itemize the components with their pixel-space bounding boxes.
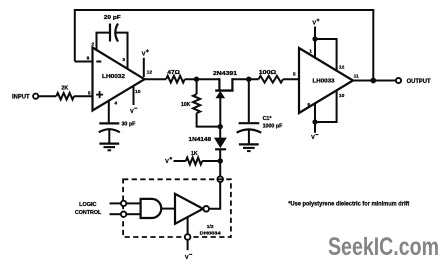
svg-text:INPUT: INPUT [12, 94, 30, 100]
wire: input terminal to R1 [38, 95, 56, 97]
svg-text:V: V [185, 255, 189, 261]
svg-text:11: 11 [354, 74, 359, 80]
svg-text:1N4148: 1N4148 [189, 137, 212, 143]
label V+ (U2) [312, 19, 319, 27]
svg-text:9: 9 [307, 102, 310, 108]
resistor R4 100&#937; [259, 76, 284, 83]
label V- (DH0034) [185, 254, 192, 261]
U1 V- stub (pin 10) [133, 86, 135, 105]
feedback wire from output node to U1 inverting input [75, 10, 374, 81]
svg-text:DH0034: DH0034 [200, 230, 221, 236]
svg-text:1/2: 1/2 [207, 224, 214, 230]
svg-text:12: 12 [339, 64, 345, 70]
transistor Q1 2N4391 (JFET switch) [215, 78, 233, 126]
wire: U2 output to output terminal [352, 80, 396, 82]
svg-text:V: V [130, 109, 134, 115]
svg-text:V: V [142, 52, 146, 58]
diode D1 1N4148 [215, 127, 226, 161]
U2 pins 9-10 strap (bottom bracket) [315, 90, 337, 122]
node D junction dot (gate node) [218, 124, 223, 129]
terminal: logic input 2 [121, 212, 126, 217]
svg-text:V: V [311, 135, 315, 141]
svg-text:*Use polystyrene dielectric fo: *Use polystyrene dielectric for minimum … [288, 201, 410, 208]
wire: logic control input 1 [110, 202, 121, 204]
ground (C1) [239, 144, 259, 151]
wire: node E to switch-drive terminal [219, 161, 221, 176]
wire: R1 to U1 pin 5 [74, 95, 94, 97]
terminal: logic input 1 [121, 201, 126, 206]
resistor R3 10K [193, 94, 200, 113]
svg-text:LH0033: LH0033 [313, 78, 335, 84]
svg-text:47Ω: 47Ω [167, 70, 180, 76]
U1 V+ stub (pin 12 area) [143, 58, 145, 77]
wire: Q1 source to node B and R4 [232, 78, 258, 80]
svg-text:20 pF: 20 pF [104, 15, 122, 21]
wire: node A down to R3 [196, 79, 198, 94]
U2 V- junction dot [312, 119, 317, 124]
wire: feedback corner to U1 pin 8 [75, 61, 94, 63]
svg-text:V: V [312, 21, 316, 27]
U2 V- stub [314, 122, 316, 133]
svg-text:10K: 10K [181, 102, 191, 108]
resistor R2 47&#937; [166, 76, 185, 83]
wire: logic control input 2 [110, 213, 121, 215]
svg-text:2N4391: 2N4391 [213, 71, 237, 77]
svg-text:1K: 1K [191, 151, 198, 157]
svg-text:100Ω: 100Ω [259, 70, 277, 76]
node B junction dot [246, 77, 251, 82]
svg-text:5: 5 [88, 90, 91, 96]
capacitor 30 pF (U1 pin 4) [99, 101, 120, 143]
svg-text:10: 10 [339, 93, 345, 99]
U2 V+ stub [314, 27, 316, 40]
svg-text:SeekIC.com: SeekIC.com [328, 233, 439, 261]
ground (30 pF) [99, 144, 119, 151]
DH0034 dashed enclosure [123, 179, 231, 237]
U2 pins 1-12 strap (top bracket) [315, 39, 337, 72]
wire: V+ node to U2 pin 1 [314, 39, 316, 58]
wire: U2 pin 9 to V- node [314, 103, 316, 122]
label V- (U2) [311, 135, 318, 142]
svg-text:4: 4 [114, 101, 117, 107]
svg-text:LH0032: LH0032 [102, 74, 125, 80]
wire: R4 to U2 pin 5 [283, 78, 300, 80]
svg-text:30 pF: 30 pF [121, 122, 136, 128]
terminal: V- (enclosure bottom) [185, 234, 191, 240]
node C junction dot (feedback takeoff) [370, 78, 376, 84]
svg-text:3: 3 [122, 57, 125, 63]
svg-text:2K: 2K [61, 85, 68, 91]
U2 V+ junction dot [312, 36, 317, 41]
wire: U1 output to R2 [144, 78, 167, 80]
svg-text:12: 12 [147, 70, 153, 76]
svg-text:1: 1 [309, 48, 312, 54]
svg-text:10: 10 [135, 89, 141, 95]
wire: R2 to node A [185, 78, 220, 80]
svg-text:5: 5 [293, 72, 296, 78]
inverter V- stub [187, 217, 189, 234]
svg-text:1000 pF: 1000 pF [263, 123, 283, 129]
wire: inverter output to switch-drive terminal [209, 182, 220, 209]
svg-text:CONTROL: CONTROL [75, 210, 102, 216]
node A junction dot [194, 77, 199, 82]
svg-text:8: 8 [87, 55, 90, 61]
op-amp U2 LH0033 (buffer) [299, 48, 353, 113]
wire: R5 to node E [202, 160, 220, 162]
svg-text:V: V [165, 159, 169, 165]
label V+ (1K pull-up) [165, 157, 172, 165]
AND gate (DH0034 input stage) [141, 199, 162, 218]
output terminal [396, 78, 401, 83]
input terminal [33, 94, 38, 99]
op-amp U1 LH0032 [93, 48, 145, 111]
resistor R5 1K [186, 158, 202, 165]
inverter 1/2 DH0034 [175, 194, 209, 224]
svg-text:LOGIC: LOGIC [79, 202, 96, 208]
label V+ (U1) [142, 49, 149, 57]
svg-text:2: 2 [92, 41, 95, 47]
wire: logic input 2 to AND gate [126, 213, 141, 215]
wire: V+ to R5 [174, 160, 186, 162]
svg-text:OUTPUT: OUTPUT [407, 79, 431, 85]
node E junction dot [218, 158, 223, 163]
wire: logic input 1 to AND gate [126, 202, 141, 204]
capacitor 20 pF (U1 pins 2-3) [97, 24, 128, 69]
svg-text:C1*: C1* [263, 116, 273, 122]
wire: V- terminal to label [187, 240, 189, 250]
capacitor C1 1000 pF (hold) [237, 79, 262, 143]
resistor R1 2K [56, 93, 74, 100]
label V- (U1) [130, 108, 137, 115]
wire: R3 to node D [197, 113, 221, 127]
terminal: switch drive (enclosure top) [217, 176, 223, 182]
wire: AND gate to inverter [161, 208, 175, 210]
